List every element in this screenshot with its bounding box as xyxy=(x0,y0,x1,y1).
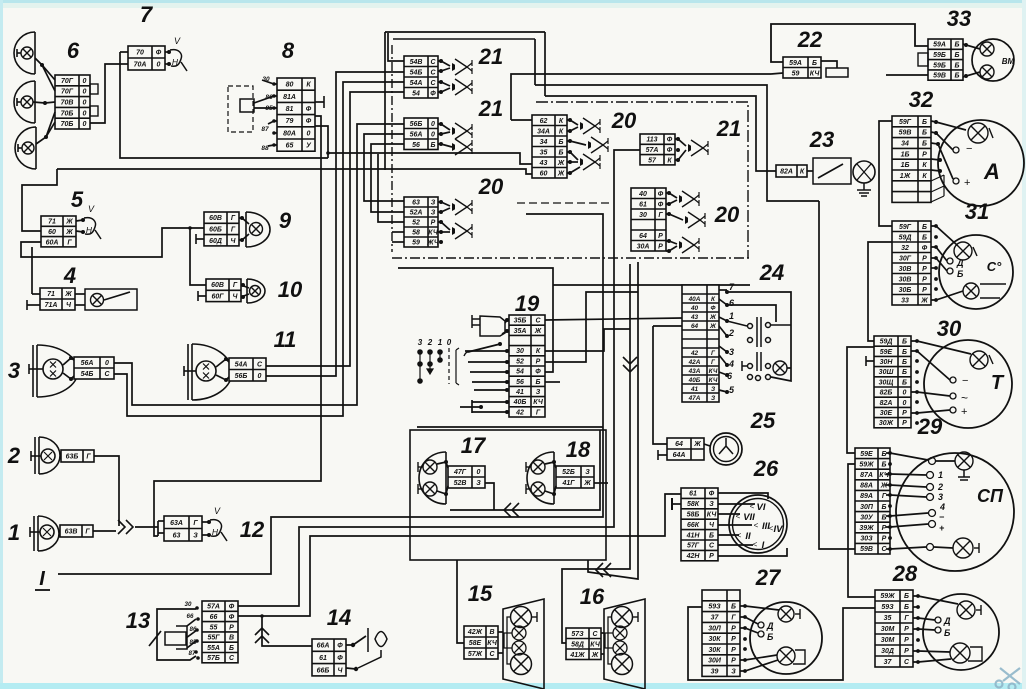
wire 29 f4 xyxy=(886,495,926,497)
svg-text:63Б: 63Б xyxy=(66,454,79,461)
wire 8 pin87a xyxy=(268,121,277,124)
svg-text:0: 0 xyxy=(903,390,907,397)
svg-text:Ф: Ф xyxy=(337,643,343,650)
svg-text:57: 57 xyxy=(648,157,657,164)
wire 21b p3 xyxy=(438,144,452,147)
svg-text:Р: Р xyxy=(536,358,541,365)
connector block 21 upper xyxy=(404,56,438,98)
box left dashdot xyxy=(391,45,393,252)
wire 8 row4 down xyxy=(315,126,328,158)
wire 11 lamp-row1 xyxy=(216,359,229,367)
wire 7 r1-switch xyxy=(165,51,169,53)
wire 19 row6 riser xyxy=(398,268,553,372)
svg-text:Ж: Ж xyxy=(709,314,717,321)
svg-text:30В: 30В xyxy=(899,276,912,283)
svg-text:59З: 59З xyxy=(881,604,894,611)
svg-text:Г: Г xyxy=(67,239,72,246)
svg-text:60: 60 xyxy=(48,229,56,236)
svg-text:42Н: 42Н xyxy=(686,553,701,560)
svg-text:Б: Б xyxy=(902,369,907,376)
connector block 16 xyxy=(566,628,601,660)
flasher unit 4 xyxy=(85,289,137,310)
connector block 3 xyxy=(74,357,114,379)
svg-text:30З: 30З xyxy=(860,536,873,543)
wire 31 f5 xyxy=(931,291,963,300)
switch 24 contacts xyxy=(727,317,791,381)
svg-text:14: 14 xyxy=(327,605,351,630)
svg-text:60Г: 60Г xyxy=(211,294,224,301)
svg-text:59Е: 59Е xyxy=(860,451,873,458)
wire run y153 xyxy=(328,153,532,164)
svg-text:70Б: 70Б xyxy=(61,121,74,128)
svg-text:7: 7 xyxy=(140,2,154,27)
wire 26 w6 xyxy=(718,544,753,546)
svg-text:54А: 54А xyxy=(410,80,423,87)
wire 7 bracket xyxy=(120,52,328,158)
wire 13 coil-bot xyxy=(187,641,196,648)
wire 7-8 link xyxy=(120,51,128,53)
svg-text:52А: 52А xyxy=(410,210,423,217)
svg-text:60: 60 xyxy=(540,170,548,177)
svg-text:Р: Р xyxy=(658,243,663,250)
svg-text:0: 0 xyxy=(83,110,87,117)
wire 18 row2 out xyxy=(594,482,608,484)
svg-text:54: 54 xyxy=(516,369,524,376)
relay 8 pin labels xyxy=(261,76,273,152)
svg-text:К: К xyxy=(800,169,805,176)
svg-text:59: 59 xyxy=(792,70,800,77)
svg-text:<: < xyxy=(753,540,758,549)
svg-text:Г: Г xyxy=(85,529,90,536)
svg-text:30К: 30К xyxy=(708,636,721,643)
connector block 1 xyxy=(60,525,93,537)
wire 21a p3 xyxy=(438,82,450,86)
switch positions 3 2 1 0 xyxy=(418,338,452,347)
wire 21a p2 xyxy=(438,68,450,71)
svg-text:66К: 66К xyxy=(687,522,700,529)
svg-text:Ф: Ф xyxy=(922,245,928,252)
svg-text:Г: Г xyxy=(731,615,736,622)
wire 24 fan1 xyxy=(719,289,727,291)
svg-text:Г: Г xyxy=(193,520,198,527)
svg-text:Ж: Ж xyxy=(880,483,888,490)
wire 10 left stub xyxy=(198,295,206,297)
svg-text:35: 35 xyxy=(540,149,548,156)
svg-text:В: В xyxy=(489,629,494,636)
svg-text:Р: Р xyxy=(922,266,927,273)
svg-text:59: 59 xyxy=(412,240,420,247)
wire 13 coil-top xyxy=(187,619,196,626)
svg-text:59А: 59А xyxy=(789,60,802,67)
svg-text:20: 20 xyxy=(478,174,504,199)
wire 27 f7 xyxy=(740,660,778,671)
svg-text:Ф: Ф xyxy=(658,191,664,198)
wire 19 fan4 xyxy=(474,389,509,391)
gauge 27 xyxy=(750,602,822,674)
connector chevron 14 xyxy=(255,628,269,635)
wire 52 stub xyxy=(378,154,404,222)
svg-text:Г: Г xyxy=(904,615,909,622)
wire 5 r1-sw xyxy=(76,220,83,221)
svg-text:47Г: 47Г xyxy=(453,469,467,476)
svg-text:87: 87 xyxy=(261,126,269,133)
lamp cluster 16 internal wires xyxy=(605,617,622,664)
wire 19 fan-left xyxy=(460,406,481,408)
svg-text:Р: Р xyxy=(904,648,909,655)
svg-text:82Б: 82Б xyxy=(880,390,893,397)
lamp pair 18 xyxy=(527,452,554,504)
svg-text:82А: 82А xyxy=(780,169,793,176)
svg-text:60В: 60В xyxy=(209,215,222,222)
svg-text:Р: Р xyxy=(431,220,436,227)
wire 33-32 link xyxy=(886,74,928,76)
wire 30 f8 xyxy=(911,410,950,413)
svg-text:Ф: Ф xyxy=(667,137,673,144)
wire 29 f5 xyxy=(886,513,928,516)
svg-text:Б: Б xyxy=(902,359,907,366)
svg-text:Н: Н xyxy=(86,225,93,235)
svg-text:Ф: Ф xyxy=(658,201,664,208)
wire 18 l2 xyxy=(545,486,556,494)
switch V/H of 12 xyxy=(210,520,222,537)
svg-text:Р: Р xyxy=(731,658,736,665)
svg-text:58Е: 58Е xyxy=(469,640,482,647)
svg-text:Ж: Ж xyxy=(534,328,542,335)
svg-text:1Б: 1Б xyxy=(901,162,910,169)
wire 8 pin133 xyxy=(274,132,277,134)
lighter 25 xyxy=(710,433,742,465)
svg-text:КЧ: КЧ xyxy=(810,70,821,77)
svg-text:60Д: 60Д xyxy=(209,238,222,245)
svg-text:Б: Б xyxy=(955,62,960,69)
svg-text:ВМ: ВМ xyxy=(1002,57,1015,66)
frame box around 17 and 18 xyxy=(410,430,606,560)
wire 15 link2 xyxy=(498,652,503,654)
svg-text:42А: 42А xyxy=(688,359,701,366)
connector block 9 xyxy=(204,212,239,246)
svg-text:З: З xyxy=(536,389,541,396)
wire 19 lever xyxy=(468,344,500,352)
wire 14 feed xyxy=(262,616,312,646)
wire 54B bundle xyxy=(266,72,404,376)
connector block 33 xyxy=(928,39,963,80)
wire 23-29 long xyxy=(819,201,855,549)
svg-text:30: 30 xyxy=(639,212,647,219)
wire 19 fan40b2 xyxy=(472,401,507,403)
wire 6 j3-row5 xyxy=(46,122,55,137)
connector chevron 1-12 xyxy=(126,520,133,534)
svg-text:16: 16 xyxy=(580,584,605,609)
svg-text:Ж: Ж xyxy=(693,441,701,448)
block 6 side tabs xyxy=(90,84,98,116)
wire 1 out xyxy=(93,530,116,532)
wire 24 fan7 xyxy=(719,372,727,375)
svg-text:VI: VI xyxy=(757,502,766,513)
svg-text:+: + xyxy=(964,177,970,189)
wire 5 r2-sw xyxy=(76,231,83,232)
temp gauge 31 xyxy=(939,235,1013,309)
watermark scissors xyxy=(996,668,1021,689)
svg-text:4: 4 xyxy=(939,502,945,512)
svg-text:Ж: Ж xyxy=(65,229,73,236)
svg-text:39Ж: 39Ж xyxy=(859,525,874,532)
wire 23 lever xyxy=(818,164,843,178)
stub 25 xyxy=(657,450,659,460)
svg-text:Б: Б xyxy=(882,461,887,468)
svg-text:З: З xyxy=(431,200,436,207)
svg-text:54Б: 54Б xyxy=(410,69,423,76)
svg-text:0: 0 xyxy=(431,121,435,128)
wire 8 pin30 xyxy=(262,80,277,84)
svg-text:30Щ: 30Щ xyxy=(879,379,894,386)
wire 20b p5 xyxy=(567,161,578,163)
wire 14 r3-horn xyxy=(346,668,356,669)
wire 19 fan2 xyxy=(470,371,509,373)
wire 20b p2 xyxy=(567,127,578,131)
wire 17 row2 out xyxy=(485,483,494,510)
svg-text:−: − xyxy=(962,375,968,387)
wire 52A bundle xyxy=(371,144,404,212)
generator/ammeter 32 xyxy=(938,120,1024,206)
svg-text:40А: 40А xyxy=(688,296,701,303)
svg-text:58: 58 xyxy=(412,230,420,237)
wire 28 f6 xyxy=(913,651,950,652)
wire 32 f2 xyxy=(931,132,953,150)
wire 23 link xyxy=(807,170,813,172)
connector block 26 xyxy=(681,488,718,561)
wire 20c p1 xyxy=(666,193,677,198)
svg-text:Б: Б xyxy=(955,52,960,59)
svg-text:70А: 70А xyxy=(134,62,147,69)
wire 16 link xyxy=(601,632,604,634)
wire lamp6.1-j xyxy=(35,58,55,80)
svg-text:57З: 57З xyxy=(571,631,584,638)
svg-text:Д: Д xyxy=(766,621,774,631)
svg-text:66Б: 66Б xyxy=(317,667,330,674)
svg-text:Ф: Ф xyxy=(709,491,715,498)
svg-text:Ф: Ф xyxy=(306,106,312,113)
svg-text:В: В xyxy=(229,635,234,642)
connector block 21 right xyxy=(640,134,675,165)
svg-text:113: 113 xyxy=(646,137,657,144)
svg-text:~: ~ xyxy=(961,391,968,405)
svg-text:70Г: 70Г xyxy=(61,89,74,96)
stub 10 left xyxy=(197,291,199,301)
connector block 27 xyxy=(702,590,740,676)
svg-text:81: 81 xyxy=(286,106,294,113)
box left edge xyxy=(384,32,386,170)
svg-text:1: 1 xyxy=(938,470,943,480)
svg-text:30И: 30И xyxy=(708,658,722,665)
svg-text:30У: 30У xyxy=(860,514,874,521)
svg-text:43: 43 xyxy=(690,314,699,321)
wire dashdot bus xyxy=(536,102,748,258)
svg-text:Б: Б xyxy=(904,604,909,611)
svg-text:17: 17 xyxy=(461,433,487,458)
wire 24 bus xyxy=(727,292,791,381)
svg-text:21: 21 xyxy=(478,96,503,121)
wire 22 feed xyxy=(771,73,783,74)
svg-text:41Н: 41Н xyxy=(686,532,701,539)
wire 25 feed xyxy=(653,325,682,327)
wire 20b p1 xyxy=(567,120,578,125)
wire 20a p3 xyxy=(438,222,450,230)
wire 6 row5 to 7 xyxy=(90,64,120,123)
svg-text:61: 61 xyxy=(319,655,327,662)
connector circle 26 xyxy=(729,495,787,553)
wire 4 lever xyxy=(104,292,130,300)
wire 24 bus2 xyxy=(787,367,791,369)
wire 24 fan5 xyxy=(719,346,727,352)
fan wires of 19 xyxy=(505,349,509,353)
wire 4 link2 xyxy=(75,304,85,306)
svg-text:+: + xyxy=(961,406,967,418)
svg-text:Б: Б xyxy=(902,379,907,386)
svg-text:43: 43 xyxy=(539,160,548,167)
svg-text:V: V xyxy=(174,36,181,46)
wire 4 row1 in xyxy=(32,293,40,295)
svg-text:54А: 54А xyxy=(235,361,248,368)
svg-text:0: 0 xyxy=(431,131,435,138)
svg-text:34: 34 xyxy=(901,141,909,148)
wire 6 j1-row2 xyxy=(42,65,55,91)
wire 31-30 link xyxy=(868,242,892,341)
wire 19-24 link xyxy=(545,318,682,320)
wire 27 f2 xyxy=(740,617,758,624)
svg-text:42: 42 xyxy=(515,409,524,416)
svg-text:70В: 70В xyxy=(61,100,74,107)
svg-text:5: 5 xyxy=(71,187,84,212)
svg-text:КЧ: КЧ xyxy=(487,640,498,647)
svg-text:29: 29 xyxy=(917,414,943,439)
wire 7 row2 xyxy=(120,63,128,65)
wire 19 fan1 xyxy=(468,361,509,363)
wire 14 r1-horn xyxy=(346,636,366,645)
svg-text:30: 30 xyxy=(185,601,192,608)
svg-text:К: К xyxy=(559,118,564,125)
wire lamp6.3-j xyxy=(36,112,55,144)
wire 31 f4 xyxy=(931,267,936,269)
svg-text:Ф: Ф xyxy=(430,90,436,97)
wire 32 f1 xyxy=(931,121,966,130)
svg-text:Р: Р xyxy=(922,276,927,283)
wire 26 w2 xyxy=(718,503,755,505)
svg-text:2: 2 xyxy=(937,482,943,492)
svg-text:З: З xyxy=(585,469,590,476)
plug symbols 21a xyxy=(439,59,443,63)
svg-text:Ж: Ж xyxy=(557,170,565,177)
svg-text:Б: Б xyxy=(902,339,907,346)
wire 4 feed xyxy=(31,247,33,294)
svg-text:33: 33 xyxy=(901,297,909,304)
wire 20c p3 xyxy=(666,214,683,220)
wire y285 run xyxy=(553,284,750,286)
svg-text:КЧ: КЧ xyxy=(879,472,890,479)
svg-text:86: 86 xyxy=(190,626,197,633)
wire 29 lamp1 link xyxy=(936,460,955,462)
svg-text:Д: Д xyxy=(956,258,964,268)
wire 25 riser xyxy=(653,326,667,444)
wire 29-28 link xyxy=(848,464,875,597)
wire 30 f5 xyxy=(911,392,950,396)
connector block 20 right xyxy=(631,188,666,251)
wire 12 r2-sw xyxy=(202,534,209,536)
svg-text:Ж: Ж xyxy=(709,323,717,330)
svg-text:40Б: 40Б xyxy=(513,399,527,406)
svg-text:34А: 34А xyxy=(537,128,550,135)
svg-text:Р: Р xyxy=(904,637,909,644)
box top line xyxy=(385,31,545,33)
plug of 19 xyxy=(480,316,505,336)
wire 10 feed xyxy=(190,228,206,285)
svg-text:ЖЧ: ЖЧ xyxy=(426,240,440,247)
connector block 12 xyxy=(164,516,202,541)
svg-text:З: З xyxy=(476,480,481,487)
wire 29 lamp link xyxy=(934,547,953,548)
svg-text:52: 52 xyxy=(412,220,420,227)
wire 11 lamp-row2 xyxy=(216,375,229,380)
svg-text:42Ж: 42Ж xyxy=(467,629,483,636)
svg-text:Б: Б xyxy=(229,645,234,652)
lamp 9 xyxy=(246,212,270,247)
wire 22-33 run xyxy=(771,24,928,62)
wire 20b p6 xyxy=(567,167,580,173)
wire 28 f2 xyxy=(913,606,918,608)
svg-text:Б: Б xyxy=(902,349,907,356)
svg-text:0: 0 xyxy=(105,360,109,367)
wire y427 wrap xyxy=(417,426,603,428)
connector block 17 xyxy=(448,466,485,488)
svg-text:13: 13 xyxy=(126,608,150,633)
wire 21c p1 xyxy=(675,139,686,146)
wire 13 c2 xyxy=(186,630,197,638)
wire 26 w7 xyxy=(718,548,787,556)
svg-text:С°: С° xyxy=(987,259,1002,274)
svg-text:КЧ: КЧ xyxy=(709,377,718,384)
wire 32 f5 xyxy=(931,170,940,171)
wire 63 bundle xyxy=(364,134,404,201)
svg-text:0: 0 xyxy=(83,78,87,85)
svg-text:0: 0 xyxy=(477,469,481,476)
lamp cluster 15 internal wires xyxy=(504,617,521,664)
wire 26 stub xyxy=(672,503,681,505)
svg-text:Г: Г xyxy=(231,215,236,222)
svg-text:Г: Г xyxy=(658,212,663,219)
svg-text:Б: Б xyxy=(904,593,909,600)
connector chevron cluster feed xyxy=(623,365,637,372)
svg-text:23: 23 xyxy=(809,127,834,152)
svg-text:КЧ: КЧ xyxy=(707,512,718,519)
svg-text:Ф: Ф xyxy=(711,305,716,312)
switch 24 terminal labels xyxy=(727,282,735,395)
svg-text:2: 2 xyxy=(7,443,21,468)
connector block 5 xyxy=(41,216,76,247)
wire 30 f1 xyxy=(911,341,971,354)
svg-text:К: К xyxy=(922,162,927,169)
wire 19 fan42 xyxy=(472,411,507,413)
wire 12 feed xyxy=(135,526,158,528)
wire 32 f4 xyxy=(931,159,940,160)
svg-text:59Д: 59Д xyxy=(899,234,912,241)
wire 59 stub xyxy=(392,241,404,243)
switch V/H of 7 xyxy=(170,50,182,67)
wire 5 feed xyxy=(22,169,57,231)
wire 27 f6 xyxy=(740,655,777,660)
svg-text:21: 21 xyxy=(716,116,741,141)
svg-text:Р: Р xyxy=(922,287,927,294)
svg-text:61: 61 xyxy=(689,491,697,498)
svg-text:59Ж: 59Ж xyxy=(880,593,895,600)
